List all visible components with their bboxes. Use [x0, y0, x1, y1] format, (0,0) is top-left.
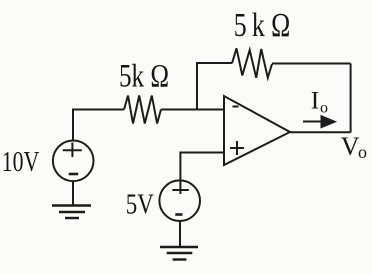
5V plus sign horizontal bar — [172, 189, 189, 191]
voltage source 5V circle — [159, 180, 200, 221]
svg-text:o: o — [358, 142, 367, 162]
resistor R1 5kΩ (input) — [124, 96, 161, 124]
svg-text:10V: 10V — [2, 146, 40, 178]
op-amp U1 triangle — [224, 96, 290, 165]
svg-text:5 k Ω: 5 k Ω — [234, 7, 290, 44]
wire op-amp output — [290, 131, 351, 133]
svg-text:o: o — [320, 100, 328, 117]
5V minus sign — [175, 213, 182, 216]
ground under 10V — [52, 204, 91, 206]
voltage source 10V circle — [53, 141, 94, 182]
ground under 5V — [160, 246, 198, 248]
op-amp plus input symbol — [230, 147, 244, 149]
svg-text:I: I — [311, 85, 320, 114]
10V minus sign — [69, 173, 79, 176]
wire from 10V source top to input node — [73, 110, 124, 142]
resistor R2 5kΩ (feedback) — [232, 48, 272, 78]
wire 5V source bottom to ground — [179, 221, 181, 247]
10V plus sign — [63, 149, 82, 151]
svg-text:V: V — [341, 132, 360, 161]
op-amp minus input symbol — [233, 106, 239, 108]
svg-text:5k Ω: 5k Ω — [119, 59, 169, 95]
wire from R2 to top-right corner — [272, 63, 351, 65]
current arrow Io — [303, 121, 323, 123]
wire 10V source bottom to ground — [72, 181, 74, 206]
wire from op-amp noninverting input to 5V source — [180, 153, 224, 195]
wire feedback left vertical and top to R2 — [197, 63, 232, 110]
svg-text:5V: 5V — [126, 189, 154, 221]
wire right vertical (feedback to output) — [350, 64, 352, 133]
wire from R1 to op-amp inverting input — [161, 109, 224, 111]
